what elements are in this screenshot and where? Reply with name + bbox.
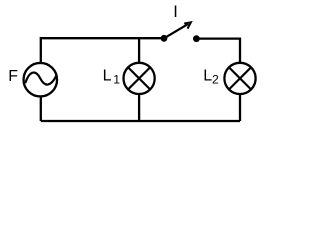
switch blade	[164, 24, 188, 38]
wire: left branch bottom (F to bottom rail)	[40, 96, 42, 121]
wire: middle branch top (L1 to top rail)	[138, 38, 140, 63]
AC source F sine wave	[25, 73, 56, 85]
wire: bottom rail	[41, 120, 240, 122]
switch left terminal dot	[161, 35, 168, 42]
svg-text:L: L	[103, 68, 112, 85]
lamp L2 circle	[224, 63, 255, 94]
svg-text:F: F	[8, 68, 18, 85]
lamp L2 cross	[229, 67, 251, 89]
lamp L1 cross	[128, 67, 150, 89]
AC source F circle	[24, 63, 58, 97]
wire: right branch bottom (L2 to bottom rail)	[239, 94, 241, 121]
wire: right branch from switch right terminal to L2	[196, 39, 240, 63]
switch blade arrowhead	[184, 22, 191, 28]
svg-text:1: 1	[113, 73, 120, 87]
svg-text:L: L	[203, 67, 212, 84]
wire: top rail from left corner to switch left terminal	[41, 38, 164, 63]
switch right terminal dot	[193, 35, 200, 42]
svg-text:I: I	[173, 3, 178, 21]
lamp L1 circle	[124, 63, 155, 94]
svg-text:2: 2	[212, 73, 219, 87]
wire: middle branch bottom (L1 to bottom rail)	[138, 94, 140, 121]
